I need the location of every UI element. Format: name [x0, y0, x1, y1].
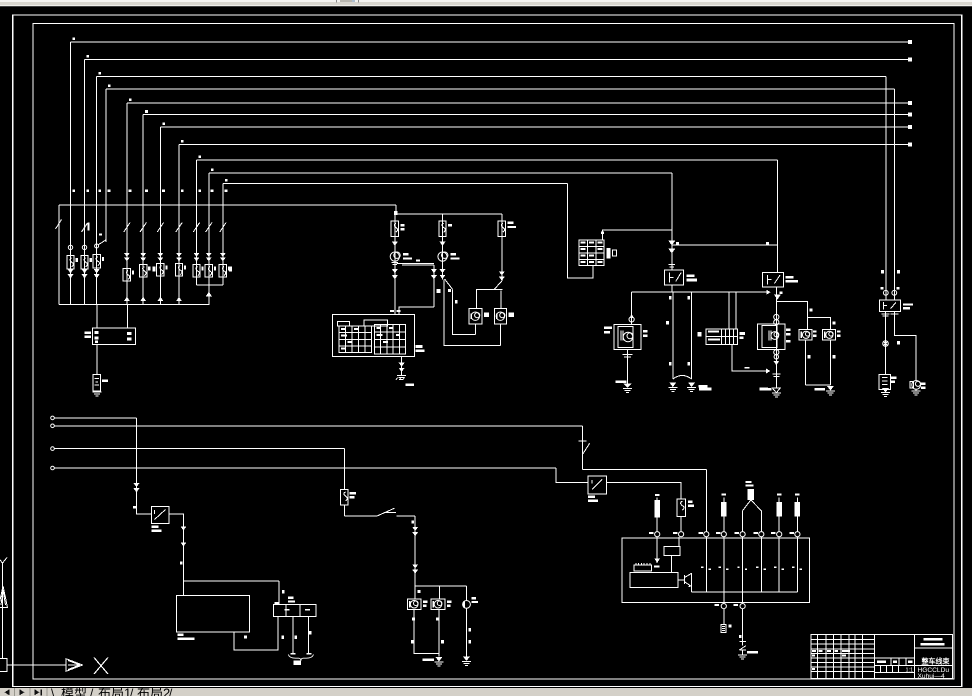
sensor S10 stub — [796, 498, 798, 503]
terminal dot bus-2 — [908, 58, 912, 62]
ground D1 label — [747, 651, 758, 654]
lamp E9 inner bar — [433, 601, 435, 608]
Y-merge label — [745, 485, 753, 487]
sensor S11 label — [729, 625, 732, 628]
relay F22 box — [665, 270, 684, 285]
ECU return tick — [244, 636, 247, 639]
title right dividers — [915, 647, 953, 649]
connector circle col2 — [82, 245, 86, 249]
wire bus-9 horizontal — [197, 159, 778, 161]
fuse F5 label — [132, 270, 134, 274]
heater connector label left — [698, 332, 702, 337]
heater connector grid — [706, 329, 738, 345]
ECU label — [178, 634, 184, 637]
ignition switch side box — [607, 248, 611, 258]
motor M4 label — [786, 329, 791, 331]
wire center colC — [501, 214, 503, 281]
connector arrow col3 — [94, 274, 100, 279]
connector tick L1 — [133, 506, 136, 509]
motor M1 label — [403, 253, 409, 255]
wire bus-9 right drop to relay F23 — [776, 160, 778, 273]
label lamp1 pin — [418, 590, 421, 593]
wire lamp E10 bottom — [499, 324, 501, 346]
wire S-box to drop — [169, 514, 184, 581]
fuse F7 left tab — [153, 267, 156, 272]
wire F22 pair down — [672, 292, 674, 379]
wire bus-1 horizontal — [71, 41, 910, 43]
switch blade col8 — [176, 219, 182, 233]
wire lamp feed drop — [414, 516, 416, 586]
lamp H1 label — [921, 383, 926, 385]
wire bus-4 horizontal — [106, 88, 895, 90]
switch blade col7 — [157, 219, 163, 233]
resistor R1 stub — [656, 498, 658, 500]
fuse F8 label — [184, 265, 186, 269]
ignition stub tick — [601, 232, 604, 234]
bus line L4 — [51, 466, 55, 470]
left bank left loop wire — [58, 205, 60, 305]
battery G1 label — [102, 380, 108, 382]
connector pair col9 — [194, 258, 200, 262]
wire center colA — [394, 214, 396, 314]
connector arrow colB — [440, 242, 446, 247]
wire strip pin3 — [308, 617, 310, 654]
module bottom pin labels — [715, 604, 720, 606]
strip SL label — [288, 597, 294, 599]
wire bus-10 horizontal — [209, 172, 672, 174]
labels lamp pins lower — [412, 618, 415, 621]
relay K label — [903, 303, 913, 305]
module bottom pin circles — [721, 604, 726, 609]
wire F21 down — [680, 516, 682, 531]
lamp E9 — [431, 599, 445, 610]
ground beeper — [463, 657, 470, 662]
labels strip pins — [281, 636, 284, 640]
diode D1 — [739, 642, 745, 650]
connector pair col10 — [206, 258, 212, 262]
motor M4 inner — [762, 326, 777, 348]
wire lamp rail — [415, 585, 466, 587]
left bank bottom rail — [59, 304, 210, 306]
ECU box — [176, 595, 249, 632]
connector arrows branch — [431, 269, 437, 273]
fuse FB label — [448, 224, 452, 226]
switch S7 on L2 — [579, 441, 590, 454]
ground M3 label — [615, 381, 626, 384]
fuse F10 — [205, 264, 212, 277]
heater connector text — [708, 331, 719, 333]
switch blade colB — [445, 279, 453, 289]
connector bars K right — [891, 313, 899, 315]
switch S8 box — [588, 476, 606, 494]
connector arrow below M4 — [773, 361, 779, 365]
toolbar detail marks — [336, 0, 337, 2]
loom double wire colA-colB — [397, 263, 434, 265]
switch S5 label — [151, 525, 158, 528]
fuse block FU label — [85, 332, 92, 334]
ignition switch cell marks — [581, 242, 586, 244]
lamp E8 label — [423, 601, 427, 603]
wire bus-3 vertical drop — [96, 76, 98, 304]
wire S10 down — [796, 516, 798, 531]
link connector ticks — [676, 242, 679, 245]
fuse F3 label — [102, 257, 104, 261]
beeper B1 label — [472, 597, 476, 599]
switch blade S0 — [56, 220, 62, 230]
wire label 4WMA — [699, 388, 711, 391]
wire branch left drop x631 — [631, 292, 633, 324]
module internal bus — [691, 573, 693, 592]
ignition switch block grid — [579, 240, 604, 266]
connector arrow colA — [392, 242, 398, 247]
connector pair col6 — [140, 258, 146, 262]
lamp E5 inner bar — [800, 332, 802, 339]
toolbar strip top — [0, 0, 972, 2]
junction arrow into F23 wire — [766, 369, 771, 374]
wire S6 to drop — [397, 515, 416, 517]
fuse F20 label — [350, 492, 357, 494]
title right column divider — [914, 635, 916, 679]
wire bus-10 vertical drop — [208, 173, 210, 305]
wire bus-6 vertical drop — [142, 115, 144, 305]
module pin circle 6 — [759, 532, 764, 537]
UCS icon Y arrowhead — [0, 586, 8, 608]
wire label Z2 — [448, 289, 451, 292]
wire branch to block — [399, 307, 434, 314]
wire rail link corner — [395, 205, 397, 214]
wire switch to lamp E3 return — [453, 289, 476, 334]
ground arrow F23 — [772, 388, 780, 393]
wire bus-7 vertical drop — [159, 127, 161, 305]
lamp E3 inner bar — [470, 314, 472, 320]
status tab bar — [0, 688, 972, 696]
bus line L1 — [51, 416, 55, 420]
connector arrows L1 — [134, 488, 140, 492]
out2 tick — [739, 635, 742, 638]
wire L1 drop — [136, 418, 138, 510]
ground pair label — [698, 385, 707, 388]
connector arrow lower col8 — [176, 297, 182, 302]
module pin circle 2 — [679, 532, 684, 537]
lamp E5 label — [813, 330, 817, 332]
connector circle x631 — [629, 317, 634, 322]
connector arrow lower col5 — [124, 297, 130, 302]
title block revision grid — [817, 635, 819, 679]
motor M3 label — [604, 327, 612, 330]
wire strip drop — [278, 581, 280, 604]
svg-text:整车线束: 整车线束 — [921, 657, 951, 666]
tab nav button prev — [20, 689, 25, 695]
wire L4 step — [556, 468, 588, 482]
wire label x672 — [666, 321, 669, 324]
fuse F1 label — [76, 258, 78, 262]
lamp E6 — [823, 330, 836, 340]
connector block C2 top tab left — [338, 322, 350, 327]
connector arrow lower col7 — [157, 297, 163, 302]
ground label E8E9 — [423, 659, 435, 662]
connector arrows colB lower — [440, 269, 446, 273]
fuse F21 label — [688, 501, 693, 503]
fuse FA — [391, 221, 398, 237]
wire bus-6 horizontal — [143, 114, 909, 116]
wire U-link cols 9-11 — [197, 284, 223, 286]
terminal dot bus-1 — [908, 40, 912, 44]
module pin circle 5 — [740, 532, 745, 537]
connector circle right pin1 — [883, 290, 888, 295]
wire FU-to-battery — [96, 345, 98, 375]
wire module out2 — [742, 609, 744, 642]
motor M3 inner — [618, 327, 633, 348]
ground arrow K1 — [882, 388, 889, 392]
ground M3 — [623, 388, 632, 390]
sensor S9 stub — [778, 498, 780, 503]
lamp E10 label — [509, 313, 515, 318]
connector arrow col1 — [68, 274, 74, 279]
label C strip — [282, 590, 285, 594]
beeper B1 — [463, 601, 471, 609]
fuse F20 — [341, 490, 348, 505]
switch blade col3 — [95, 244, 99, 248]
ground lamps label — [814, 388, 825, 391]
connector circle right pin2 — [892, 290, 897, 295]
sensor S11 capsule — [721, 624, 726, 632]
connector arrow col10 lower — [206, 292, 212, 297]
fuse F2 label — [90, 258, 92, 262]
sensor S9 bar — [776, 502, 782, 516]
ignition block top stub — [603, 230, 672, 240]
svg-text:1:1: 1:1 — [906, 668, 914, 674]
connector pair col11 — [220, 258, 226, 262]
tab nav button last — [35, 689, 40, 695]
junction dot center rail — [394, 211, 398, 215]
wire bus-10 right drop to relay F22 — [671, 173, 673, 270]
amplifier box inside module — [630, 572, 678, 587]
wire R1 down — [656, 517, 658, 531]
switch S5 box — [151, 507, 169, 524]
wire D1 to ground — [742, 650, 744, 655]
fuse FC — [498, 221, 505, 237]
wire F23 lamp branch 2 — [808, 318, 831, 330]
wire M3 to ground — [627, 350, 629, 384]
relay K box — [880, 300, 901, 311]
transistor Q1 — [678, 573, 692, 586]
motor M2 label — [451, 253, 457, 255]
fuse F6 — [140, 264, 147, 277]
fuse FC label — [508, 222, 514, 224]
center rail — [396, 213, 502, 215]
wire colC to lamp E10 — [500, 291, 502, 309]
lamp E5 — [799, 330, 812, 340]
wire block C2 to ground — [401, 356, 403, 375]
connector ticks lamp feed — [412, 521, 415, 524]
title middle cell texts — [877, 660, 886, 663]
wire bus-9 vertical drop — [196, 160, 198, 285]
connector block C2 outer — [332, 314, 414, 356]
control module U1 box — [622, 538, 809, 602]
left bank top rail — [59, 204, 396, 206]
wire S8 to fuse drop — [607, 483, 682, 500]
lamp E8 — [407, 599, 421, 610]
wire across to strip — [184, 580, 280, 582]
wire lamp3 drop — [466, 586, 468, 601]
connector strip SL — [274, 605, 316, 617]
wire branch right drop pair to heater connector — [728, 292, 730, 329]
labels return wires — [411, 640, 414, 643]
wire L2 drop — [582, 426, 584, 470]
wire F20 down — [343, 505, 345, 516]
wire F23 lamp branch — [776, 301, 807, 329]
connector bars colA — [392, 261, 399, 263]
title company text — [923, 638, 942, 641]
fuse F8 — [175, 263, 182, 276]
fuse F11 label — [228, 266, 230, 270]
crystal comb component — [634, 565, 651, 571]
terminal dot bus-7 — [908, 125, 912, 129]
fuse F7 — [157, 263, 164, 276]
wire F22 below — [671, 285, 673, 292]
connector circles below M4 — [774, 350, 779, 355]
module pin circle 4 — [721, 532, 726, 537]
ground label C2 — [406, 384, 415, 387]
ground D1 — [738, 654, 747, 656]
module pin circle 1 — [655, 532, 660, 537]
wire label right cluster — [760, 388, 768, 391]
Y-merge wires — [743, 500, 762, 532]
connector block C2 sub-grid left — [339, 326, 371, 353]
wire F20 bottom run — [344, 515, 377, 517]
connector arrows colC — [499, 271, 505, 275]
connector bars below M4 — [772, 373, 780, 375]
wire bus-4 right drop — [894, 89, 896, 300]
wire to ECU top — [183, 581, 185, 595]
fuse FA label — [401, 224, 405, 226]
connector bars M3 — [623, 354, 633, 356]
Y-merge sensor bar — [748, 489, 754, 500]
connector arrow lower col6 — [140, 297, 146, 302]
sensor S10 bar — [795, 502, 801, 516]
resistor R1 bar — [654, 500, 660, 517]
wire col col1-to-FU — [96, 305, 98, 329]
wire colB down to lamp E10 return — [444, 279, 500, 345]
UCS icon X arrowhead — [66, 659, 83, 672]
wire labels right drop — [881, 270, 884, 273]
wire bus-8 vertical drop — [178, 144, 180, 304]
connector circles F23 — [774, 314, 779, 319]
component K1 label — [891, 377, 896, 379]
wire relay K right pin — [895, 311, 917, 380]
lamp E6 label — [837, 330, 841, 332]
wire beeper return — [466, 608, 468, 656]
wire S9 down — [778, 516, 780, 531]
resistor R2 bar — [721, 502, 727, 516]
motor M2 circles — [438, 252, 447, 261]
wire center colB — [442, 214, 444, 279]
fuse F21 — [677, 499, 685, 516]
wire bus-1 vertical drop — [70, 42, 72, 305]
wire link F22-F23 — [672, 244, 778, 246]
title block outer — [811, 635, 953, 679]
wire label Z1 — [437, 289, 441, 293]
switch blade col6 — [140, 219, 146, 233]
strip SL pin ticks — [285, 609, 290, 611]
title middle vertical — [874, 635, 876, 679]
fuse F10 label — [214, 266, 216, 270]
wire bus-7 horizontal — [160, 126, 909, 128]
wire label colC right — [455, 300, 458, 304]
wire bus-11 vertical drop — [222, 184, 224, 285]
fuse F11 — [219, 264, 226, 277]
ground arrow pair right — [688, 383, 695, 388]
fuse F9 — [193, 264, 200, 277]
bus line L2 — [51, 424, 55, 428]
wire bus-5 vertical drop — [126, 103, 128, 305]
label F23 top — [780, 292, 783, 295]
switch S8 label — [588, 495, 595, 498]
wire L2 drop to module — [705, 470, 707, 532]
wire bus-5 horizontal — [127, 102, 909, 104]
relay F23 box — [763, 273, 784, 288]
strip SL top tick — [275, 602, 279, 604]
module cell labels — [701, 566, 703, 568]
wire lamps join — [806, 384, 831, 386]
connector arrows colA lower — [392, 269, 398, 273]
connector pair col8 — [176, 258, 182, 262]
fuse F11 right tab — [229, 267, 232, 272]
ground lamp H1 — [915, 389, 917, 391]
wire bus-3 right drop — [885, 76, 887, 300]
title small cells row — [880, 665, 882, 672]
connector pair col7 — [158, 258, 164, 262]
resistor R2 stub — [723, 498, 725, 503]
motor M3 box — [614, 325, 641, 350]
module pin circle 7 — [777, 532, 782, 537]
connector arrows S5 out — [181, 526, 187, 530]
ground arrow pair left — [669, 383, 676, 388]
wire lamp E9 return — [438, 610, 440, 657]
wire lamp E5 return — [805, 340, 807, 385]
wire L3 drop — [343, 449, 345, 490]
connector block C2 label — [416, 345, 423, 348]
ground F23 label — [761, 388, 772, 391]
connector bars F22 — [669, 264, 676, 266]
fuse FB — [439, 221, 446, 237]
wire relay K left pin down — [885, 311, 887, 374]
wire module out1 — [723, 609, 725, 625]
lamp E8 inner bar — [409, 601, 411, 608]
lamp E10 inner bar — [496, 314, 498, 320]
fuse F3 — [93, 255, 100, 269]
wire coil to amp — [671, 555, 673, 572]
wire bus-8 horizontal — [179, 143, 909, 145]
fuse F5 — [123, 268, 130, 281]
switch blade S6 — [377, 508, 396, 516]
wire colC to lamp E3 — [477, 290, 495, 309]
connector arrows F22 top — [668, 241, 675, 246]
ground below C2 — [397, 375, 406, 377]
lamp E3 — [469, 308, 482, 324]
module pin circle 3 — [704, 532, 709, 537]
lamp H1 — [912, 381, 921, 390]
switch blade col11 — [220, 219, 226, 233]
connector circle col1 — [68, 245, 72, 249]
wire lamp E6 return — [829, 340, 831, 385]
lamp E3 label — [484, 313, 489, 318]
wire col5-to-FU — [127, 305, 129, 329]
tick S5 out — [180, 562, 183, 565]
wire number labels at staircase — [73, 38, 76, 41]
wire number labels above rail — [72, 190, 75, 193]
wire lamp E8 return — [414, 610, 439, 654]
